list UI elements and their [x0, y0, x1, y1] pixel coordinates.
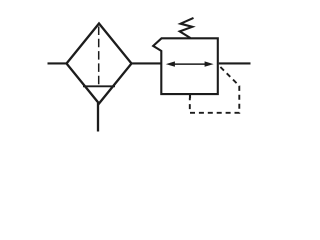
wire pilot stub under body [189, 95, 191, 99]
wire inlet line [48, 62, 68, 64]
flow arrowhead left [166, 61, 175, 66]
wire drain stub [97, 103, 99, 132]
filter element dashed centerline [98, 27, 100, 87]
wire outlet line [219, 62, 251, 64]
filter F1 diamond body [67, 24, 132, 104]
wire filter to regulator [132, 62, 162, 64]
filter sump separator line [83, 85, 115, 87]
pilot line dashed feedback loop [190, 66, 240, 113]
spring adjustment zigzag [180, 18, 194, 38]
flow arrowhead right [205, 61, 214, 66]
flow double arrow shaft [172, 63, 207, 65]
regulator R1 body with relief notch [153, 38, 218, 94]
